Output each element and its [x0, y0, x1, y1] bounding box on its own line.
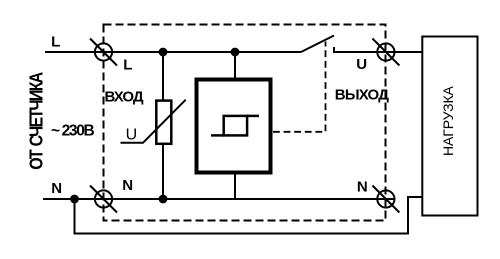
svg-text:НАГРУЗКА: НАГРУЗКА: [440, 85, 456, 156]
svg-text:ВХОД: ВХОД: [105, 89, 144, 106]
svg-text:~ 230В: ~ 230В: [51, 122, 94, 139]
svg-text:N: N: [51, 180, 62, 197]
svg-text:N: N: [122, 177, 133, 194]
svg-text:U: U: [356, 56, 367, 73]
svg-text:ВЫХОД: ВЫХОД: [335, 87, 389, 104]
svg-text:L: L: [123, 56, 132, 73]
svg-text:U: U: [126, 127, 138, 144]
svg-text:L: L: [51, 34, 60, 51]
svg-text:ОТ СЧЕТЧИКА: ОТ СЧЕТЧИКА: [25, 71, 47, 169]
svg-text:N: N: [357, 178, 368, 195]
